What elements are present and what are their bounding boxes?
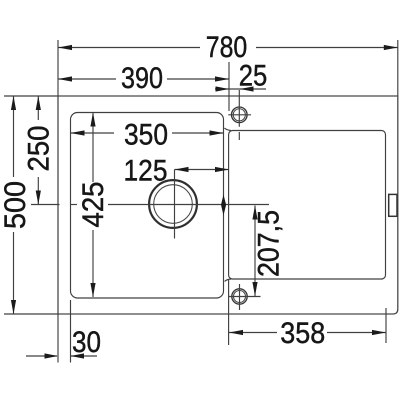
- centerline lens mark on bowl edge: [221, 195, 226, 216]
- dimension 425 (vertical): [77, 113, 110, 298]
- dimension 25: [215, 60, 267, 93]
- drainboard outline: [229, 131, 386, 280]
- drain vertical crosshair / 125 extension: [174, 170, 176, 239]
- extension line left (sink top edge extended): [4, 95, 58, 97]
- drainboard top-left hook: [224, 128, 231, 130]
- extension line drainboard right below (for 358): [385, 308, 387, 343]
- svg-text:30: 30: [72, 326, 101, 359]
- drain outer circle: [149, 180, 197, 228]
- bottom tap hole: [232, 289, 247, 304]
- svg-text:500: 500: [0, 181, 32, 229]
- extension line x=397.8 above sink (for 780): [397, 40, 399, 96]
- dimension 358: [229, 317, 386, 350]
- extension line x=58 above sink (for 780/390): [57, 40, 59, 96]
- drainboard bottom-left hook: [225, 279, 231, 281]
- svg-text:207,5: 207,5: [253, 210, 286, 277]
- dimension 207,5 (vertical): [252, 206, 285, 297]
- svg-text:25: 25: [239, 60, 268, 93]
- extension line left bottom (sink bottom edge extended): [4, 313, 58, 315]
- svg-text:350: 350: [124, 119, 168, 152]
- bowl horizontal centerline tick (left of 425 text): [31, 204, 60, 206]
- extension line sink left edge below (for 30): [57, 314, 59, 363]
- sink outer outline: [58, 96, 398, 314]
- svg-text:358: 358: [280, 317, 325, 350]
- svg-text:390: 390: [121, 62, 163, 95]
- dimension 350: [71, 119, 224, 152]
- svg-text:425: 425: [77, 182, 110, 228]
- svg-text:125: 125: [124, 155, 168, 188]
- svg-text:250: 250: [23, 126, 56, 172]
- drain inner circle: [154, 185, 193, 224]
- dimension 500 (vertical): [0, 96, 32, 314]
- top tap hole: [232, 107, 248, 123]
- extension line bowl left edge below (for 30): [70, 300, 72, 363]
- bowl outline: [71, 113, 224, 299]
- extension line drainboard left below (for 358): [228, 280, 230, 345]
- overflow rectangle: [389, 194, 397, 216]
- dimension 125: [124, 155, 230, 188]
- dimension 390: [58, 62, 229, 95]
- dimension 250 (vertical): [23, 96, 56, 205]
- dimension 30: [26, 326, 101, 359]
- bowl horizontal centerline: [108, 204, 269, 206]
- dimension 780: [58, 31, 398, 64]
- extension line sink centerline top (for 390/25): [228, 62, 230, 111]
